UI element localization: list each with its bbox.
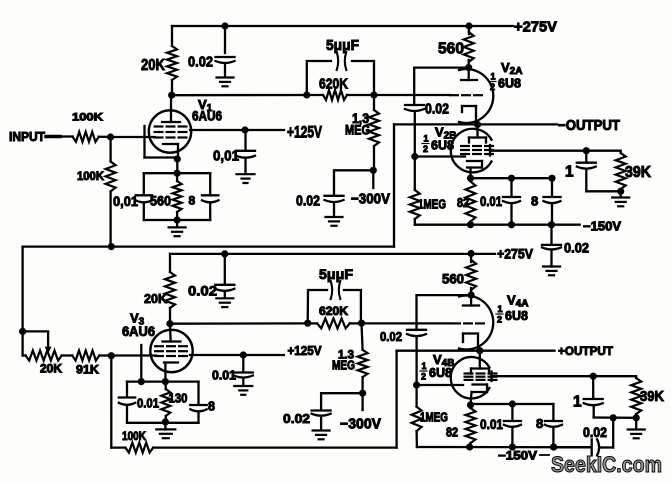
svg-text:6U8: 6U8 (431, 138, 454, 153)
svg-text:39K: 39K (625, 164, 652, 181)
svg-text:6U8: 6U8 (429, 365, 452, 380)
svg-text:+125V: +125V (288, 344, 323, 358)
svg-text:SeekIC.com: SeekIC.com (551, 452, 662, 477)
svg-text:2: 2 (490, 82, 495, 92)
svg-text:0.01: 0.01 (480, 417, 503, 432)
svg-text:560: 560 (438, 41, 464, 58)
svg-text:82: 82 (457, 196, 469, 210)
svg-text:MEG: MEG (345, 123, 370, 138)
svg-text:6AU6: 6AU6 (192, 109, 222, 124)
svg-text:100K: 100K (122, 431, 147, 443)
svg-text:0.02: 0.02 (380, 330, 402, 344)
svg-text:1: 1 (565, 164, 574, 181)
svg-text:20K: 20K (144, 291, 168, 306)
svg-text:1MEG: 1MEG (418, 197, 446, 212)
svg-text:1: 1 (491, 72, 496, 82)
svg-text:8: 8 (531, 194, 538, 209)
svg-text:+275V: +275V (497, 246, 534, 262)
svg-text:20K: 20K (141, 57, 166, 74)
svg-text:−300V: −300V (351, 191, 390, 208)
svg-text:8: 8 (536, 416, 543, 431)
svg-text:0.02: 0.02 (188, 54, 213, 71)
svg-text:0.02: 0.02 (283, 411, 310, 426)
svg-text:5μμF: 5μμF (326, 37, 359, 54)
svg-text:6U8: 6U8 (505, 308, 528, 323)
svg-text:0.02: 0.02 (296, 193, 320, 210)
svg-text:0.02: 0.02 (564, 241, 589, 256)
svg-text:8: 8 (208, 400, 215, 414)
svg-text:1MEG: 1MEG (420, 411, 448, 425)
svg-text:91K: 91K (76, 365, 100, 377)
svg-text:0.02: 0.02 (188, 283, 217, 299)
svg-text:0.01: 0.01 (480, 194, 502, 209)
svg-text:8: 8 (189, 194, 196, 208)
svg-text:2: 2 (421, 372, 426, 382)
svg-text:82: 82 (446, 426, 458, 440)
svg-text:INPUT: INPUT (9, 129, 45, 144)
svg-text:−300V: −300V (340, 417, 381, 433)
svg-text:20K: 20K (40, 364, 63, 376)
svg-text:560: 560 (150, 193, 171, 209)
svg-text:6AU6: 6AU6 (122, 324, 155, 339)
svg-text:0.02: 0.02 (583, 425, 607, 440)
svg-text:620K: 620K (319, 306, 349, 318)
svg-text:0,01: 0,01 (213, 148, 239, 165)
svg-text:39K: 39K (640, 388, 664, 405)
svg-text:0.02: 0.02 (425, 101, 449, 118)
svg-text:1: 1 (422, 361, 427, 371)
svg-text:6U8: 6U8 (498, 76, 521, 91)
svg-text:−150V: −150V (583, 220, 622, 234)
svg-text:100K: 100K (77, 171, 105, 183)
svg-text:0.01: 0.01 (137, 396, 159, 411)
svg-text:0.01: 0.01 (212, 369, 236, 383)
svg-text:2: 2 (497, 315, 502, 325)
svg-text:MEG: MEG (332, 359, 355, 373)
svg-text:100K: 100K (72, 112, 103, 124)
svg-text:620K: 620K (319, 76, 348, 93)
svg-text:1: 1 (573, 394, 582, 411)
svg-text:2: 2 (423, 144, 428, 154)
svg-text:0,01: 0,01 (113, 193, 138, 209)
svg-text:5μμF: 5μμF (319, 266, 353, 282)
svg-text:130: 130 (169, 391, 188, 406)
svg-text:−150V: −150V (498, 451, 537, 463)
svg-text:−OUTPUT: −OUTPUT (558, 118, 620, 134)
svg-text:+125V: +125V (287, 124, 322, 142)
svg-text:1: 1 (498, 304, 503, 314)
svg-text:1: 1 (424, 134, 429, 144)
svg-text:+275V: +275V (514, 20, 557, 36)
svg-text:560: 560 (442, 272, 464, 287)
svg-text:+OUTPUT: +OUTPUT (558, 344, 614, 358)
